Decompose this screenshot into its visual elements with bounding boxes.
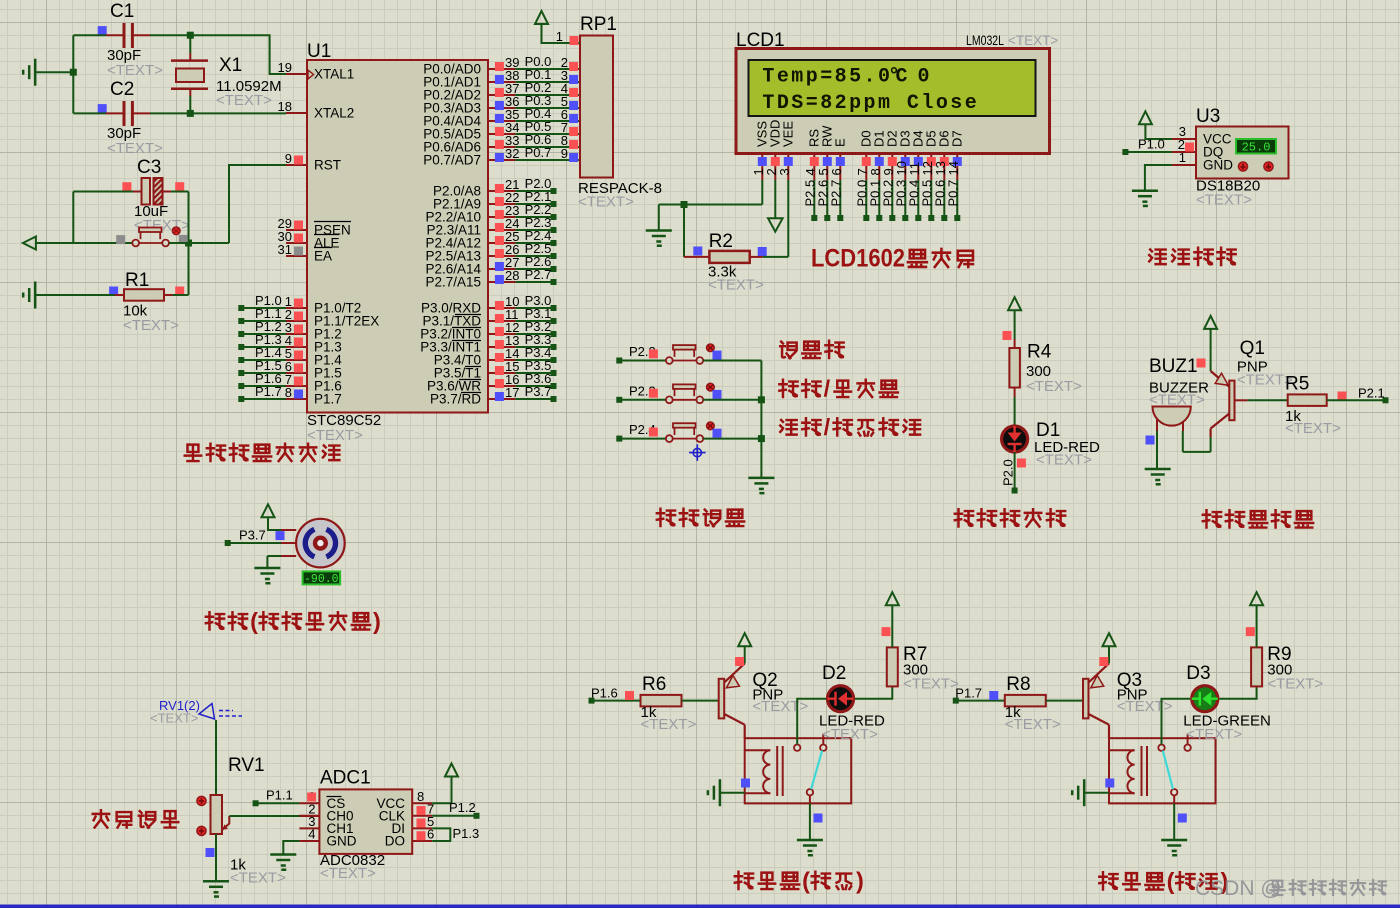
svg-text:R6: R6: [642, 674, 666, 695]
svg-text:C1: C1: [110, 1, 134, 22]
power arrow VCC (ADC): [432, 764, 458, 804]
pin 7 RP1: [561, 120, 578, 136]
pin 3 RP1: [561, 68, 578, 84]
net label P0.6 (LCD): [932, 180, 947, 221]
pin 9 LCD D2: [881, 130, 900, 180]
resistor R8 1k: [1005, 674, 1083, 733]
svg-text:E: E: [832, 138, 847, 147]
pin 5 P1.4 with net label: [238, 345, 342, 368]
pin 1 RP1: [556, 29, 579, 45]
svg-text:R8: R8: [1006, 674, 1030, 695]
svg-text:28: 28: [505, 268, 519, 283]
net label P3.7 (servo): [225, 528, 285, 547]
svg-text:<TEXT>: <TEXT>: [641, 716, 697, 733]
pin 39 P0.0 wire to RP1: [423, 54, 580, 77]
wire relay common to ground (Q3): [1174, 795, 1187, 840]
ground (LCD VSS): [646, 231, 672, 248]
pin 21 P2.0 net stub: [433, 176, 557, 199]
svg-text:X1: X1: [219, 55, 242, 76]
net label P0.7 (LCD): [945, 180, 960, 221]
svg-text:LM032L: LM032L: [966, 33, 1004, 48]
svg-text:<TEXT>: <TEXT>: [1186, 726, 1242, 743]
pin 7 LCD D0: [855, 130, 874, 180]
power arrow VCC (Q2): [735, 633, 751, 666]
svg-text:0: 0: [918, 66, 930, 89]
net label P1.7 (relay drive): [953, 686, 1005, 704]
ground (buzzer): [1145, 469, 1171, 486]
power terminal (left arrow): [23, 237, 132, 250]
LED D1 LED-RED: [1002, 420, 1100, 469]
svg-text:TDS=82ppm Close: TDS=82ppm Close: [762, 92, 979, 115]
wire osc left vertical: [72, 35, 74, 113]
svg-text:<TEXT>: <TEXT>: [150, 711, 198, 726]
crystal X1: [171, 35, 282, 113]
transistor Q1 PNP: [1211, 338, 1293, 437]
wire RST node vertical: [73, 192, 192, 296]
svg-text:P1.3: P1.3: [453, 826, 480, 841]
svg-text:<TEXT>: <TEXT>: [1036, 452, 1092, 469]
ground (buttons): [748, 478, 774, 495]
pin 18 XTAL2: [278, 99, 355, 121]
power arrow VCC (R7): [882, 592, 899, 647]
potentiometer RV1 1k: [197, 755, 286, 887]
pin 14 LCD D7: [946, 130, 965, 180]
caption 测温模块: [1149, 248, 1235, 265]
pin 28 P2.7 net stub: [425, 267, 556, 290]
overlines P3 names: [452, 315, 481, 393]
svg-text:4: 4: [308, 827, 315, 842]
net label P2.6 (LCD): [815, 180, 830, 221]
relay RL (Q2): [745, 734, 852, 804]
svg-text:P2.0: P2.0: [1000, 459, 1015, 486]
svg-text:C2: C2: [110, 79, 134, 100]
capacitor C1: [73, 1, 190, 79]
caption 单片机最小系统: [185, 444, 340, 461]
pin 36 P0.3 wire to RP1: [423, 93, 580, 116]
wire LCD VSS to ground: [659, 180, 763, 231]
power arrow VCC (Q3): [1099, 633, 1115, 666]
node XTAL2 wire: [187, 110, 286, 117]
pin 12 P3.2 net stub: [420, 319, 556, 342]
ground (RV1): [203, 881, 229, 898]
net label P2.5 (LCD): [802, 180, 817, 221]
pin 6 RP1: [561, 107, 578, 123]
svg-text:XTAL1: XTAL1: [314, 67, 354, 82]
adc chip ADC1 ADC0832: [319, 768, 412, 883]
net label P1.3 (ADC DI/DO): [432, 826, 479, 841]
svg-text:<TEXT>: <TEXT>: [123, 317, 179, 334]
sensor U3 DS18B20: [1196, 106, 1289, 209]
svg-text:): ): [373, 608, 381, 634]
pin 9 RST: [285, 151, 341, 173]
caption 减键/加热制冷: [780, 414, 920, 440]
pin 8 LCD D1: [868, 130, 887, 180]
wire servo ground lead: [267, 556, 281, 568]
svg-text:6: 6: [829, 168, 844, 175]
resistor R7 300: [887, 644, 959, 693]
origin crosshair marker: [689, 444, 706, 461]
pin 3 ADC CH1: [299, 814, 319, 829]
pin 37 P0.2 wire to RP1: [423, 80, 580, 103]
pin 17 P3.7 net stub: [430, 384, 557, 407]
resistor R5 1k: [1248, 374, 1383, 438]
pin 29 PSEN: [278, 216, 351, 238]
pin 11 LCD D4: [907, 130, 926, 180]
svg-text:<TEXT>: <TEXT>: [1005, 716, 1061, 733]
svg-text:U1: U1: [307, 41, 331, 62]
capacitor C3 10uF: [73, 157, 190, 234]
svg-text:<TEXT>: <TEXT>: [1026, 378, 1082, 395]
bottom blue bar: [0, 905, 1400, 908]
motor servo (MOTOR-PWMSERVO): [281, 519, 345, 568]
svg-text:<TEXT>: <TEXT>: [1008, 33, 1058, 48]
pin 15 P3.5 net stub: [434, 358, 557, 381]
svg-text:<TEXT>: <TEXT>: [1117, 698, 1173, 715]
power arrow VCC (Q1): [1197, 316, 1218, 371]
pin 4 RP1: [561, 81, 578, 97]
net label P0.4 (LCD): [906, 180, 921, 221]
pin 8 RP1: [561, 133, 578, 149]
pin 30 ALE: [278, 229, 340, 251]
resistor R1 10k: [35, 270, 188, 334]
ground (relay Q3): [1161, 840, 1187, 857]
svg-text:R2: R2: [709, 231, 733, 252]
svg-text:P3.7: P3.7: [239, 528, 266, 543]
caption LCD1602显示屏: [811, 245, 973, 273]
pin 33 P0.6 wire to RP1: [423, 132, 580, 155]
svg-text:R1: R1: [125, 270, 149, 291]
pin 22 P2.1 net stub: [433, 189, 557, 212]
pin 7 P1.6 with net label: [238, 371, 341, 394]
ground (U3): [1132, 191, 1158, 208]
svg-text:14: 14: [946, 161, 961, 175]
net label P0.2 (LCD): [880, 180, 895, 221]
ground (servo): [254, 568, 280, 585]
svg-text:P2.7: P2.7: [828, 180, 843, 207]
pin 25 P2.4 net stub: [425, 228, 556, 251]
pin 9 RP1: [561, 146, 578, 162]
pin 23 P2.2 net stub: [425, 202, 556, 225]
svg-text:31: 31: [278, 242, 292, 257]
pin 38 P0.1 wire to RP1: [423, 67, 580, 90]
wire RV1 bottom to ground: [215, 834, 217, 881]
pin 24 P2.3 net stub: [426, 215, 556, 238]
svg-text:D7: D7: [949, 130, 964, 147]
transistor Q3 PNP: [1083, 663, 1173, 738]
svg-text:LCD1602: LCD1602: [811, 245, 905, 273]
pin 6 ADC DO: [412, 827, 434, 842]
resistor pack RP1 RESPACK-8: [578, 14, 662, 211]
svg-text:RV1: RV1: [228, 755, 265, 776]
caption 水质调节: [93, 810, 179, 827]
svg-text:P2.7: P2.7: [525, 267, 552, 282]
svg-text:P0.7: P0.7: [525, 145, 552, 160]
svg-text:P1.2: P1.2: [449, 800, 476, 815]
svg-text:25.0: 25.0: [1242, 141, 1271, 155]
caption 设置键: [780, 341, 843, 358]
svg-text:P2.1: P2.1: [1358, 386, 1385, 401]
push button P2.2: [616, 344, 761, 364]
svg-text:GND: GND: [327, 834, 357, 849]
pin 16 P3.6 net stub: [427, 371, 557, 394]
resistor R4 300: [1003, 331, 1083, 426]
svg-text:<TEXT>: <TEXT>: [216, 92, 272, 109]
net label P2.1 (R5): [1358, 386, 1389, 404]
svg-text:R4: R4: [1027, 342, 1052, 363]
push button P2.4: [616, 422, 761, 442]
svg-text:R5: R5: [1285, 374, 1309, 395]
svg-text:-90.0: -90.0: [304, 573, 339, 586]
svg-text:3: 3: [777, 168, 792, 175]
pin 34 P0.5 wire to RP1: [423, 119, 580, 142]
wire RST to U1: [229, 165, 286, 243]
svg-text:<TEXT>: <TEXT>: [708, 277, 764, 294]
svg-text:<TEXT>: <TEXT>: [320, 865, 376, 882]
power arrow VCC (U3): [1139, 111, 1172, 139]
net label P1.0 (U3): [1122, 137, 1172, 156]
probe terminal RV1(2): [150, 698, 242, 726]
svg-text:(: (: [250, 608, 258, 634]
pin 14 P3.4 net stub: [434, 345, 557, 368]
overline EA: [314, 247, 332, 249]
pin 6 LCD E: [829, 138, 848, 180]
pin 2 LCD VDD: [764, 120, 783, 180]
svg-text:P2.7/A15: P2.7/A15: [425, 275, 481, 290]
ground (top-left, rotated): [23, 59, 77, 86]
pin 13 P3.3 net stub: [420, 332, 556, 355]
pin 4 LCD RS: [803, 129, 822, 180]
caption 按键设置: [657, 509, 744, 526]
svg-text:9: 9: [285, 151, 292, 166]
resistor R2 3.3k: [684, 205, 788, 294]
wire Q1 collector to buzzer: [1183, 431, 1211, 452]
svg-text:<TEXT>: <TEXT>: [578, 194, 634, 211]
svg-text:<TEXT>: <TEXT>: [230, 870, 286, 887]
pin 4 P1.3 with net label: [238, 332, 341, 355]
svg-text:CSDN @: CSDN @: [1195, 877, 1282, 900]
pin 1 LCD VSS: [751, 121, 770, 180]
svg-text:Q1: Q1: [1240, 338, 1265, 359]
pin 11 P3.1 net stub: [422, 306, 556, 329]
ground (R1 left, rotated): [23, 282, 35, 309]
svg-text:<TEXT>: <TEXT>: [903, 676, 959, 693]
pin 26 P2.5 net stub: [425, 241, 556, 264]
pin 32 P0.7 wire to RP1: [423, 145, 580, 168]
net label P1.6 (relay drive): [589, 686, 641, 704]
pin 2 P1.1 with net label: [238, 306, 379, 329]
net label P1.1 (ADC): [253, 788, 300, 807]
svg-text:D2: D2: [822, 663, 846, 684]
wire ADC GND: [283, 841, 299, 855]
svg-text:C: C: [896, 66, 908, 89]
pin 8 ADC VCC: [412, 789, 432, 804]
wire relay common to ground (Q2): [810, 795, 823, 840]
pin 4 ADC GND: [299, 827, 319, 842]
pin 5 RP1: [561, 94, 578, 110]
svg-text:<TEXT>: <TEXT>: [822, 726, 878, 743]
pin 3 P1.2 with net label: [238, 319, 341, 342]
pin 7 ADC CLK: [412, 802, 434, 817]
pin 27 P2.6 net stub: [425, 254, 556, 277]
LED D2 LED-RED: [797, 663, 892, 744]
caption 继电器(加热): [735, 867, 864, 893]
svg-text:P1.1: P1.1: [266, 788, 293, 803]
net label P0.5 (LCD): [919, 180, 934, 221]
pin 2 U3 DQ: [1172, 137, 1196, 152]
power arrow VCC (R4): [1008, 297, 1021, 339]
pin 2 ADC CH0: [299, 802, 319, 817]
ground (ADC): [270, 855, 296, 872]
pin 2 RP1: [561, 55, 578, 71]
power arrow VCC (R9): [1246, 592, 1263, 647]
wire RV1 wiper to ADC CH0: [229, 815, 319, 817]
overline ALE: [314, 234, 339, 236]
svg-text:<TEXT>: <TEXT>: [107, 62, 163, 79]
pin 3 LCD VEE: [777, 121, 796, 180]
pin 35 P0.4 wire to RP1: [423, 106, 580, 129]
power arrow VCC (RP1): [535, 11, 580, 43]
pin 6 P1.5 with net label: [238, 358, 341, 381]
caption 舵机(模拟开关盖): [206, 608, 381, 634]
svg-text:P3.7: P3.7: [525, 384, 552, 399]
svg-text:<TEXT>: <TEXT>: [1196, 192, 1252, 209]
svg-text:<TEXT>: <TEXT>: [1267, 676, 1323, 693]
pin 3 U3 VCC: [1172, 124, 1196, 139]
pin 1 U3 GND: [1172, 150, 1196, 165]
svg-text:<TEXT>: <TEXT>: [752, 698, 808, 715]
wire buzzer left to ground: [1146, 431, 1158, 469]
net label P1.2 (ADC CLK): [432, 800, 479, 819]
power arrow VCC (servo): [262, 504, 282, 530]
pin 31 EA: [278, 242, 332, 264]
wire U3 GND: [1145, 165, 1172, 191]
relay RL (Q3): [1109, 734, 1216, 804]
net label P0.0 (LCD): [854, 180, 869, 221]
push button P2.3: [616, 383, 761, 403]
svg-text:BUZ1: BUZ1: [1149, 356, 1198, 377]
net label P0.1 (LCD): [867, 180, 882, 221]
pin 12 LCD D5: [920, 130, 939, 180]
net label P2.0 (D1): [1000, 452, 1017, 494]
svg-text:8: 8: [285, 385, 292, 400]
pin 5 ADC DI: [412, 814, 434, 829]
svg-text:P1.7: P1.7: [314, 392, 342, 407]
LED D3 LED-GREEN: [1162, 663, 1271, 744]
wire button bus: [758, 361, 765, 478]
svg-text:<TEXT>: <TEXT>: [307, 427, 363, 444]
svg-text:U3: U3: [1196, 106, 1220, 127]
svg-text:9: 9: [561, 146, 568, 161]
svg-text:19: 19: [278, 60, 292, 75]
svg-text:Temp=85.0: Temp=85.0: [762, 66, 892, 89]
svg-text:P1.6: P1.6: [591, 686, 618, 701]
svg-text:DO: DO: [385, 834, 405, 849]
pin 10 LCD D3: [894, 130, 913, 180]
svg-text:ADC1: ADC1: [320, 768, 371, 789]
svg-text:32: 32: [505, 146, 519, 161]
power arrow down (LCD VDD): [768, 180, 783, 232]
caption 加键/开关盖: [779, 375, 898, 401]
svg-text:8: 8: [417, 789, 424, 804]
svg-text:C3: C3: [137, 157, 161, 178]
pin 10 P3.0 net stub: [421, 293, 557, 316]
svg-text:VEE: VEE: [780, 121, 795, 147]
resistor R6 1k: [641, 674, 719, 733]
transistor Q2 PNP: [719, 663, 809, 738]
pin 1 ADC CS: [299, 789, 319, 804]
net label P2.7 (LCD): [828, 180, 843, 221]
ground feed (relay coil Q3, rotated): [1072, 779, 1114, 807]
svg-text:1: 1: [1179, 150, 1186, 165]
svg-text:P1.7: P1.7: [955, 686, 982, 701]
svg-text:(: (: [802, 867, 810, 893]
wire LCD VEE to R2: [787, 180, 789, 257]
pin 13 LCD D6: [933, 130, 952, 180]
svg-text:RP1: RP1: [580, 14, 617, 35]
caption 蜂鸣器报警: [1203, 510, 1313, 527]
buzzer BUZ1: [1149, 356, 1209, 431]
svg-text:D3: D3: [1186, 663, 1210, 684]
svg-text:1: 1: [556, 29, 563, 44]
svg-text:18: 18: [278, 99, 292, 114]
pin 5 LCD RW: [816, 125, 835, 180]
capacitor C2: [73, 79, 190, 157]
svg-text:17: 17: [505, 385, 519, 400]
LCD display LCD1 LM032L: [736, 30, 1058, 154]
svg-text:/: /: [824, 375, 831, 401]
net label P0.3 (LCD): [893, 180, 908, 221]
svg-text:P3.7/RD: P3.7/RD: [430, 392, 481, 407]
svg-text:P0.7: P0.7: [945, 180, 960, 207]
svg-text:P1.0: P1.0: [1138, 137, 1165, 152]
ground (relay Q2): [797, 840, 823, 857]
svg-text:<TEXT>: <TEXT>: [1285, 420, 1341, 437]
op chip U1 STC89C52: [307, 41, 488, 444]
svg-text:(: (: [1167, 868, 1175, 894]
svg-text:P1.7: P1.7: [255, 384, 282, 399]
svg-text:<TEXT>: <TEXT>: [107, 140, 163, 157]
svg-text:P0.7/AD7: P0.7/AD7: [423, 153, 481, 168]
pin 19 XTAL1: [278, 60, 355, 82]
svg-text:): ): [856, 867, 864, 893]
servo angle display -90.0: [303, 571, 341, 585]
ground feed (relay coil Q2, rotated): [708, 779, 750, 807]
svg-text:RST: RST: [314, 158, 341, 173]
wire RV1 top: [215, 720, 217, 795]
pin 8 P1.7 with net label: [238, 384, 341, 407]
pin 1 P1.0 with net label: [238, 293, 361, 316]
resistor R9 300: [1251, 644, 1323, 693]
svg-text:XTAL2: XTAL2: [314, 106, 354, 121]
watermark CSDN: [1195, 877, 1386, 900]
svg-text:D1: D1: [1036, 420, 1060, 441]
caption 按键指示灯: [955, 509, 1065, 526]
svg-text:EA: EA: [314, 249, 332, 264]
svg-text:/: /: [824, 414, 831, 440]
caption 继电器(制冷): [1099, 868, 1228, 894]
overline PSEN: [314, 221, 351, 223]
svg-text:GND: GND: [1203, 158, 1233, 173]
reset button: [116, 227, 229, 247]
node XTAL1 wire: [187, 32, 286, 74]
